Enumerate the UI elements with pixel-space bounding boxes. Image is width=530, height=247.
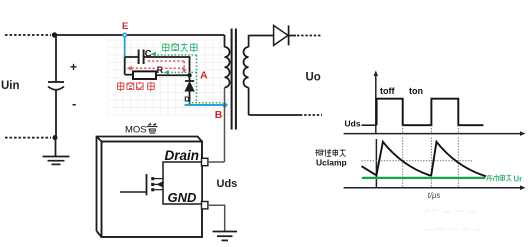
svg-text:R: R: [157, 65, 164, 76]
transformer core: [231, 29, 233, 130]
node: snubber/diode junction: [187, 73, 191, 77]
wire: Uin branch upper: [55, 35, 57, 82]
svg-text:E: E: [122, 21, 128, 32]
label 电容充电 (green): [163, 43, 198, 52]
capacitor C plates: [138, 50, 140, 65]
axis Y bottom: [375, 139, 377, 188]
red dashed discharge path: [131, 61, 184, 71]
svg-text:Uclamp: Uclamp: [316, 158, 347, 168]
axis X bottom: [344, 187, 522, 189]
svg-text:-: -: [72, 96, 76, 111]
wire: Uin branch lower: [55, 91, 57, 138]
svg-text:Drain: Drain: [165, 148, 200, 163]
wire: blue drop from E: [124, 37, 126, 57]
MOS block 3D back edges: [97, 137, 203, 238]
label 反射电压Ur (green): [487, 174, 512, 181]
wire: snubber top branch right: [144, 57, 189, 73]
svg-text:B: B: [215, 109, 223, 121]
mosfet Q1: [120, 191, 147, 193]
diode D (clamp): [189, 75, 191, 81]
reflected voltage green line: [362, 177, 485, 179]
svg-text:Uin: Uin: [1, 80, 20, 92]
ground (mos): [213, 232, 238, 241]
pin pad Drain: [202, 158, 208, 165]
dotted edge continuations: [403, 125, 459, 133]
node B (blue): [221, 102, 228, 109]
wire: snubber bottom branch left: [125, 74, 133, 76]
svg-text:toff: toff: [380, 86, 395, 96]
node: input junction bottom: [53, 135, 58, 140]
svg-text:Uds: Uds: [217, 178, 238, 190]
wire: snubber top branch left: [125, 56, 138, 58]
wire: blue drain link: [185, 104, 225, 106]
svg-text:D: D: [184, 94, 190, 103]
node: input junction top: [52, 32, 57, 37]
wire: snubber bottom branch right: [156, 74, 190, 76]
red arrowheads: [127, 66, 132, 71]
faint editor grid: [108, 40, 238, 115]
svg-text:ton: ton: [409, 86, 423, 96]
wire: top rail: [55, 34, 225, 36]
transformer primary: [224, 35, 226, 47]
sawtooth waveform: [362, 142, 487, 176]
svg-text:+: +: [70, 60, 77, 74]
transformer secondary: [248, 35, 250, 47]
pin pad GND: [202, 202, 208, 209]
square wave: [377, 99, 484, 126]
dotted verticals: [403, 138, 459, 188]
label 钳位电压 (black): [315, 149, 345, 156]
diode output: [274, 25, 288, 45]
svg-text:MOS: MOS: [125, 125, 147, 136]
green arrowheads: [151, 52, 156, 57]
capacitor Uin: plates: [48, 81, 64, 83]
axis Y top: [375, 74, 377, 134]
svg-text:Ur: Ur: [514, 174, 523, 183]
svg-text:t/μs: t/μs: [428, 191, 441, 200]
wire: gnd pin: [208, 205, 225, 231]
svg-text:Uo: Uo: [306, 72, 321, 84]
MOS inner pin block: [163, 162, 202, 204]
green dotted charge path: [154, 55, 223, 103]
wire: drain to B: [208, 161, 225, 163]
svg-text:A: A: [200, 70, 208, 82]
Uds level stub: [362, 124, 377, 126]
faint watermark ghosts: [424, 210, 480, 230]
wire: ground stub: [55, 138, 57, 156]
resistor R: [133, 71, 156, 79]
wire: snubber left vertical: [124, 57, 126, 74]
svg-text:GND: GND: [168, 190, 198, 205]
ground (input): [43, 157, 70, 165]
wire: secondary bottom: [249, 114, 300, 116]
wire: secondary top to diode: [249, 35, 274, 37]
dotted Uclamp level: [362, 160, 473, 162]
svg-text:Uds: Uds: [345, 119, 361, 129]
axis X top: [344, 133, 522, 135]
wire: top rail dashed lead-in: [5, 34, 51, 36]
wire: bottom rail dashed lead-in: [5, 137, 51, 139]
label 电容放电 (red): [118, 82, 155, 92]
MOS block front face: [102, 142, 203, 238]
